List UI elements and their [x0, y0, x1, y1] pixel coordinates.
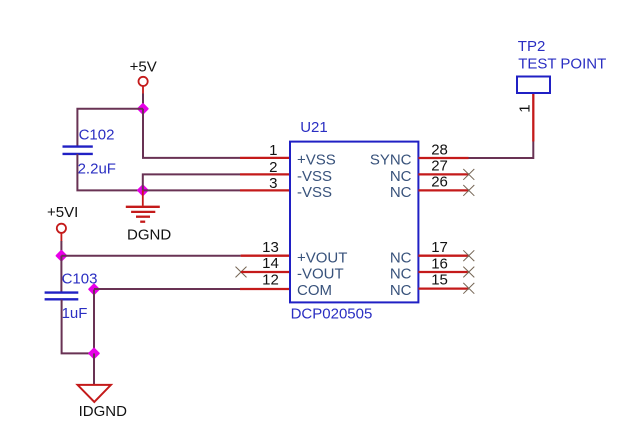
svg-text:26: 26 — [431, 173, 448, 190]
svg-text:NC: NC — [390, 184, 412, 201]
pin 17 stub (NC) — [418, 255, 468, 257]
svg-text:+5VI: +5VI — [47, 204, 78, 221]
junction B (DGND net) — [138, 185, 148, 195]
wire +5V to junction A — [142, 94, 144, 109]
svg-text:NC: NC — [390, 249, 412, 266]
svg-text:IDGND: IDGND — [79, 403, 128, 420]
pin 13 stub (+VOUT) — [241, 255, 290, 257]
svg-text:DCP020505: DCP020505 — [291, 306, 373, 323]
wire junction E to IDGND — [93, 353, 95, 385]
svg-text:C103: C103 — [62, 271, 98, 288]
junction E (IDGND net) — [89, 349, 99, 359]
svg-text:NC: NC — [390, 282, 412, 299]
ground DGND — [126, 207, 160, 222]
svg-text:TP2: TP2 — [518, 38, 546, 55]
no-connect X pin 26 — [463, 185, 474, 196]
pin 26 stub (NC) — [418, 189, 468, 191]
svg-text:-VSS: -VSS — [297, 168, 332, 185]
svg-text:17: 17 — [431, 239, 448, 256]
wire C103 bottom to junction E — [62, 300, 94, 354]
svg-text:+VOUT: +VOUT — [297, 249, 347, 266]
svg-text:14: 14 — [262, 255, 279, 272]
svg-text:+5V: +5V — [130, 59, 157, 76]
svg-text:+VSS: +VSS — [297, 152, 336, 169]
pin 28 stub (SYNC) — [418, 157, 468, 159]
svg-text:16: 16 — [431, 256, 448, 273]
svg-text:COM: COM — [297, 282, 332, 299]
wire junction B to pin 3 — [143, 189, 240, 191]
wire pin 28 to TP2 — [469, 142, 534, 159]
svg-text:15: 15 — [431, 271, 448, 288]
power symbol +5V — [139, 77, 148, 94]
svg-text:-VSS: -VSS — [297, 184, 332, 201]
svg-text:12: 12 — [262, 272, 279, 289]
wire junction A to pin 1 — [143, 109, 240, 158]
capacitor C102 — [63, 147, 93, 154]
svg-text:TEST POINT: TEST POINT — [518, 56, 606, 73]
wire junction B to pin 2 — [143, 174, 240, 190]
svg-text:2.2uF: 2.2uF — [78, 161, 116, 178]
wire junction C to C103 top — [60, 256, 62, 293]
svg-text:-VOUT: -VOUT — [297, 266, 344, 283]
wire junction A to C102 top — [77, 109, 143, 147]
wire C102 bottom to junction B — [77, 154, 142, 191]
no-connect X pin 16 — [463, 267, 474, 278]
no-connect X pin 15 — [463, 283, 474, 294]
svg-text:27: 27 — [431, 158, 448, 175]
pin 1 stub (+VSS) — [240, 157, 290, 159]
testpoint TP2 pin stub — [532, 93, 534, 142]
wire junction D to junction E — [93, 290, 95, 354]
svg-text:1: 1 — [269, 142, 277, 159]
svg-text:2: 2 — [269, 159, 277, 176]
junction C (+5VI net) — [57, 251, 67, 261]
svg-text:13: 13 — [262, 239, 279, 256]
svg-text:28: 28 — [431, 142, 448, 159]
svg-text:1: 1 — [516, 104, 533, 112]
junction D (COM net) — [89, 284, 99, 294]
svg-text:U21: U21 — [300, 119, 328, 136]
pin 15 stub (NC) — [418, 287, 468, 289]
svg-text:3: 3 — [269, 175, 277, 192]
wire +5VI to junction C — [60, 241, 62, 256]
testpoint TP2 body — [517, 77, 550, 94]
svg-text:SYNC: SYNC — [370, 152, 412, 169]
wire junction C to pin 13 — [61, 255, 240, 257]
svg-text:1uF: 1uF — [62, 305, 88, 322]
no-connect X pin 27 — [463, 169, 474, 180]
pin 14 stub (-VOUT) — [241, 271, 290, 273]
svg-text:NC: NC — [390, 168, 412, 185]
pin 12 stub (COM) — [240, 288, 290, 290]
ground IDGND — [78, 385, 111, 402]
power symbol +5VI — [57, 224, 66, 242]
svg-text:NC: NC — [390, 266, 412, 283]
wire junction D to pin 12 — [94, 288, 240, 290]
wire junction B to DGND — [142, 190, 144, 206]
IC U21 body — [290, 142, 418, 303]
capacitor C103 — [45, 293, 79, 300]
no-connect X pin 17 — [463, 250, 474, 261]
svg-text:C102: C102 — [79, 126, 115, 143]
no-connect X pin 14 — [236, 267, 247, 278]
pin 16 stub (NC) — [418, 271, 468, 273]
junction A (+5V net) — [138, 104, 148, 114]
pin 2 stub (-VSS) — [240, 173, 290, 175]
pin 3 stub (-VSS) — [240, 189, 290, 191]
pin 27 stub (NC) — [418, 173, 468, 175]
svg-text:DGND: DGND — [127, 227, 171, 244]
